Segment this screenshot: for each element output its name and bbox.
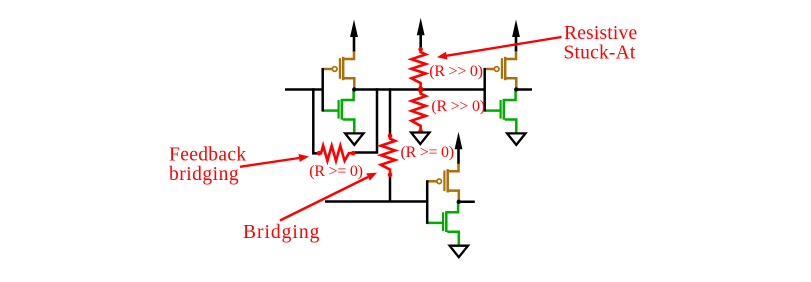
power arrow VDD of stuck-at resistor bbox=[417, 18, 425, 51]
transistor Q2 of U1 (NMOS) bbox=[322, 90, 354, 134]
ground of U3 bbox=[507, 133, 525, 145]
svg-text:(R >= 0): (R >= 0) bbox=[309, 163, 362, 180]
transistor Q6 of U3 (NMOS) bbox=[484, 90, 516, 134]
transistor Q5 of U3 (PMOS) bbox=[484, 51, 516, 88]
wire: drop from U1 output to bridging resistor top bbox=[389, 88, 392, 134]
svg-text:(R >= 0): (R >= 0) bbox=[401, 144, 454, 161]
svg-text:Stuck-At: Stuck-At bbox=[564, 42, 636, 63]
ground of U2 bbox=[450, 246, 468, 258]
node: output of U1 bbox=[352, 87, 356, 91]
svg-text:Bridging: Bridging bbox=[243, 222, 320, 243]
node: output of U2 bbox=[457, 200, 461, 204]
wire: drop from input net A to feedback resistor left end bbox=[313, 88, 318, 153]
svg-text:Feedback: Feedback bbox=[169, 144, 247, 165]
resistor R2 (R &gt;&gt; 0) to GND bbox=[411, 88, 425, 133]
transistor Q1 of U1 (PMOS) bbox=[322, 51, 354, 88]
ground of stuck-at resistor R2 bbox=[411, 133, 429, 145]
svg-text:bridging: bridging bbox=[169, 164, 239, 185]
resistor R4 feedback bridging (R &gt;= 0) bbox=[317, 146, 356, 161]
wire: gate riser of U2 bbox=[426, 180, 429, 224]
power arrow VDD of U1 bbox=[350, 20, 358, 53]
resistor R1 (R &gt;&gt; 0) to VDD bbox=[411, 47, 425, 91]
node: output of U3 bbox=[514, 87, 518, 91]
wire: drop from U1 output to feedback resistor right end bbox=[355, 88, 378, 152]
wire: gate riser of U1 bbox=[321, 68, 324, 112]
transistor Q4 of U2 (NMOS) bbox=[427, 202, 459, 246]
wire: output net of U1 to input riser of U3 bbox=[354, 88, 484, 91]
arrowhead pointing at resistor R1 bbox=[437, 52, 447, 60]
wire: VDD arrow to resistor R1 bbox=[419, 46, 422, 49]
arrow from Bridging label to R3 bbox=[280, 173, 377, 221]
wire: output stub of U2 bbox=[459, 201, 475, 204]
arrow from Feedback bridging label to R4 bbox=[240, 154, 309, 167]
svg-text:Resistive: Resistive bbox=[564, 23, 637, 44]
transistor Q3 of U2 (PMOS) bbox=[427, 164, 459, 201]
svg-text:(R >> 0): (R >> 0) bbox=[431, 98, 484, 115]
svg-text:(R >> 0): (R >> 0) bbox=[429, 63, 482, 80]
wire: bridging resistor bottom to net B bbox=[389, 176, 392, 202]
wire: gate riser of U3 bbox=[483, 68, 486, 112]
wire: output stub of U3 bbox=[516, 88, 532, 91]
ground of U1 bbox=[345, 133, 363, 145]
wire: input net B of inverter U2 bbox=[325, 200, 427, 203]
power arrow VDD of U2 bbox=[455, 132, 463, 165]
power arrow VDD of U3 bbox=[512, 20, 520, 53]
wire: input net A to inverter U1 bbox=[285, 88, 323, 91]
leader line from Resistive Stuck-At label bbox=[443, 37, 562, 56]
resistor R3 bridging (R &gt;= 0) bbox=[381, 133, 395, 177]
